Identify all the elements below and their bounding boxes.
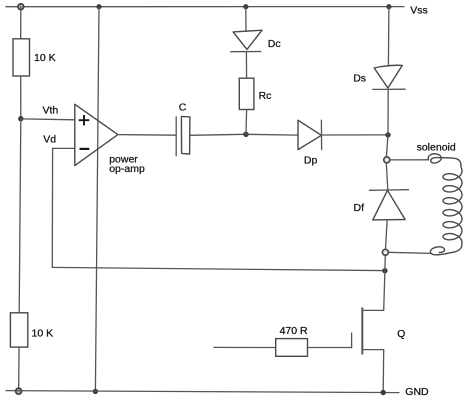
svg-text:C: C	[179, 102, 187, 114]
wire: 470R to gate bar	[308, 347, 352, 349]
wire: gate line to 470R	[214, 346, 276, 348]
resistor R3 470 R	[276, 339, 308, 357]
wire: left rail from Vth node down to R2 top	[19, 119, 21, 313]
svg-text:Dp: Dp	[304, 154, 318, 166]
node: junction dot feedback / right rail	[382, 268, 387, 273]
node: junction dot Q source / GND	[381, 390, 386, 395]
node: junction dot Rc branch / signal line	[243, 132, 248, 137]
op-amp U1 triangle	[75, 104, 118, 165]
node: solenoid bottom terminal (open circle)	[382, 249, 388, 255]
diode Dp triangle (pointing right)	[298, 120, 321, 149]
wire: Dc to Rc	[245, 52, 247, 79]
transistor Q gate bar	[351, 333, 353, 348]
wire: GND bottom rail	[6, 391, 399, 393]
svg-text:10 K: 10 K	[32, 328, 54, 340]
svg-text:powerop-amp: powerop-amp	[109, 153, 145, 175]
diode Df cathode bar	[369, 189, 408, 192]
svg-text:10 K: 10 K	[34, 52, 56, 64]
resistor Rc	[239, 78, 254, 109]
wire: Vd vertical feedback segment	[51, 148, 53, 267]
wire: left rail from R2 bottom to GND	[18, 347, 21, 391]
wire: Vth input to op-amp +	[21, 118, 75, 121]
wire: left rail from R1 bottom to Vth node	[20, 76, 22, 119]
wire: Vss dot down to diode Dc	[245, 7, 247, 32]
wire: right rail to solenoid top terminal	[386, 135, 388, 157]
node: junction dot left rail / Vss	[18, 4, 24, 10]
wire: mid vertical rail Vss to GND (through op-amp)	[95, 7, 99, 392]
wire: feedback line across to right rail	[52, 267, 385, 270]
resistor R2 10 K (lower left)	[10, 313, 27, 347]
resistor R1 10 K (upper left)	[13, 39, 30, 76]
diode Ds cathode bar	[373, 88, 405, 90]
solenoid L1 coil body	[437, 158, 462, 244]
svg-text:Dc: Dc	[268, 38, 281, 50]
node: Vth junction dot	[18, 116, 23, 121]
wire: Dp cathode to right rail	[322, 134, 389, 136]
diode Dp cathode bar	[320, 120, 322, 149]
wire: op-amp - input stub to corner	[53, 147, 75, 149]
wire: capacitor C to Rc junction	[190, 134, 246, 135]
svg-text:GND: GND	[405, 386, 429, 398]
transistor Q channel bar	[361, 308, 363, 355]
wire: Df anode down to solenoid bottom terminal	[386, 220, 388, 249]
node: solenoid top terminal (open circle)	[384, 157, 390, 163]
wire: bottom terminal to feedback junction	[384, 255, 386, 271]
wire: left rail from Vss to R1 top	[20, 7, 22, 39]
svg-text:solenoid: solenoid	[417, 141, 456, 153]
wire: op-amp output to capacitor C	[118, 134, 176, 137]
svg-text:Vss: Vss	[410, 5, 428, 17]
wire: solenoid top lead	[390, 159, 429, 161]
node: junction dot right rail / Vss	[386, 4, 391, 9]
wire: Ds cathode down to Dp junction	[387, 89, 389, 135]
transistor Q source lead	[362, 350, 383, 393]
diode Dc cathode bar	[231, 51, 261, 53]
svg-text:Vth: Vth	[43, 104, 59, 116]
svg-text:470 R: 470 R	[280, 325, 308, 337]
node: junction dot left rail / GND	[16, 388, 22, 394]
op-amp U1 plus input mark	[79, 115, 90, 125]
node: junction dot Dc branch / Vss	[243, 4, 248, 9]
wire: junction to diode Dp anode	[246, 133, 298, 136]
node: junction dot mid rail / GND	[93, 389, 98, 394]
svg-text:Q: Q	[397, 328, 405, 340]
solenoid L1 bottom exit loop	[430, 244, 461, 255]
wire: Vss top supply rail	[6, 6, 404, 8]
wire: solenoid bottom lead	[389, 252, 431, 253]
diode Df triangle (pointing up)	[373, 190, 405, 220]
wire: Rc bottom to signal junction	[245, 110, 248, 135]
capacitor C left plate	[175, 117, 177, 156]
solenoid L1 top entry loop	[428, 154, 441, 163]
transistor Q drain lead	[362, 271, 385, 311]
svg-text:Vd: Vd	[43, 134, 56, 146]
svg-text:Rc: Rc	[259, 90, 272, 102]
op-amp U1 minus input mark	[80, 148, 90, 150]
node: junction dot mid rail / Vss	[96, 4, 101, 9]
capacitor C right plate (box)	[181, 116, 190, 154]
node: junction dot Dp / right rail	[385, 132, 390, 137]
diode Dc triangle (pointing down)	[233, 30, 262, 49]
wire: terminal down to diode Df	[386, 163, 388, 190]
svg-text:Ds: Ds	[353, 73, 366, 85]
wire: right rail Vss down to diode Ds	[387, 7, 390, 66]
svg-text:Df: Df	[354, 202, 365, 214]
diode Ds triangle (pointing down)	[374, 65, 402, 88]
